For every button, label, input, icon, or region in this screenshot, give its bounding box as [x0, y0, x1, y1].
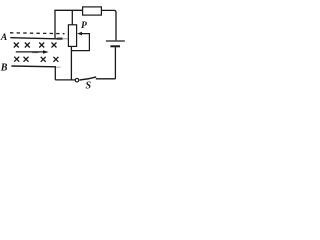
svg-text:S: S — [86, 81, 92, 92]
rail A end blob — [57, 38, 63, 40]
switch S lever — [80, 77, 97, 80]
svg-text:P: P — [81, 21, 87, 31]
wire below rheostat — [70, 46, 72, 80]
field cross row2 b — [24, 57, 29, 62]
svg-text:B: B — [0, 63, 8, 74]
wire faint rail B tail — [56, 66, 61, 68]
wire right side down — [96, 47, 116, 79]
resistor R box top — [83, 7, 102, 15]
switch S contact circle — [75, 78, 79, 82]
wire vertical from rail A to top — [54, 10, 56, 38]
wire solid rail B — [11, 65, 56, 68]
battery long plate — [106, 40, 125, 42]
field cross row1 d — [52, 43, 57, 48]
field cross row1 c — [39, 43, 44, 48]
field cross row2 d — [53, 57, 58, 62]
wire dashed rail A top — [10, 32, 65, 35]
field cross row2 c — [41, 57, 46, 62]
wire top left — [54, 9, 82, 11]
wire vertical from rail B down — [54, 66, 56, 80]
svg-text:A: A — [0, 33, 7, 43]
scan fleck — [32, 52, 38, 54]
wire top right with corner — [101, 10, 116, 40]
wire into rheostat top — [71, 10, 73, 24]
rheostat P box — [68, 25, 76, 47]
rheostat wiper arrow and tail wire — [71, 34, 89, 51]
wire bottom left — [55, 79, 75, 81]
field cross row1 b — [25, 43, 30, 48]
wire faint rail A tail — [62, 38, 68, 40]
wire solid rail A — [10, 38, 62, 39]
velocity arrow — [16, 51, 44, 53]
battery short plate — [110, 45, 120, 47]
field cross row2 a — [14, 57, 19, 62]
field cross row1 a — [14, 43, 19, 48]
